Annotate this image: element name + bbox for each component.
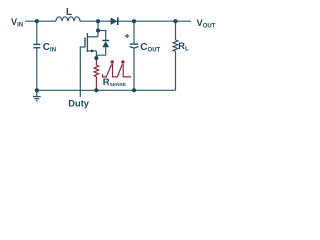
wire RL branch upper — [175, 21, 177, 40]
svg-text:RL: RL — [178, 41, 189, 53]
wire source elbow down — [95, 51, 97, 59]
svg-text:CIN: CIN — [43, 42, 56, 53]
resistor RL — [173, 40, 178, 51]
wire RSENSE bottom lead — [95, 77, 97, 91]
svg-text:VIN: VIN — [11, 17, 23, 29]
arrowhead source current — [91, 49, 95, 52]
svg-text:Duty: Duty — [68, 99, 89, 109]
transistor Q1 channel bar — [86, 33, 88, 52]
wire CIN branch lower — [36, 48, 38, 90]
node VIN/CIN junction — [35, 19, 39, 23]
current waveform icon — [103, 64, 132, 77]
plus sign COUT — [125, 34, 129, 38]
svg-text:L: L — [66, 7, 72, 18]
node body diode tap — [96, 28, 100, 32]
svg-text:RSENSE: RSENSE — [103, 77, 127, 88]
wire RL branch lower — [175, 51, 177, 90]
diode D2 body diode bar — [102, 40, 109, 42]
node COUT top junction — [132, 19, 136, 23]
diode D2 body diode triangle — [102, 41, 109, 47]
resistor RSENSE — [94, 65, 99, 76]
wire COUT branch lower — [133, 48, 135, 90]
node COUT bottom junction — [132, 88, 136, 92]
diode D2 body diode anode wire — [96, 47, 105, 55]
wire bottom rail — [37, 89, 176, 91]
diode D1 triangle — [111, 18, 118, 25]
wire diode cathode to VOUT — [119, 20, 192, 22]
wire CIN branch upper — [36, 21, 38, 43]
node sense tap — [94, 56, 98, 60]
capacitor COUT curved plate — [130, 46, 139, 48]
ground — [33, 90, 41, 100]
wire drain stub — [87, 36, 98, 38]
wire COUT branch upper — [133, 21, 135, 43]
svg-text:VOUT: VOUT — [197, 18, 216, 30]
wire gate lead — [80, 47, 85, 97]
wire drain branch — [97, 21, 99, 37]
node RSENSE bottom junction — [94, 88, 98, 92]
wire source stub — [87, 50, 96, 52]
wire RSENSE top lead — [95, 59, 97, 66]
inductor L — [56, 17, 80, 21]
diode D1 cathode bar — [117, 17, 119, 25]
svg-text:COUT: COUT — [140, 42, 160, 53]
diode D2 body diode cathode wire — [98, 31, 106, 41]
wire inductor to diode anode — [80, 20, 111, 22]
node RL top junction — [173, 19, 177, 23]
capacitor COUT top plate — [130, 43, 139, 45]
waveform peak dot 1 — [111, 60, 114, 63]
node ground junction — [35, 88, 39, 92]
waveform peak dot 2 — [121, 60, 124, 63]
transistor Q1 gate bar — [84, 37, 86, 47]
capacitor CIN — [33, 43, 40, 45]
wire top rail VIN side — [25, 20, 56, 22]
node drain junction — [96, 19, 100, 23]
